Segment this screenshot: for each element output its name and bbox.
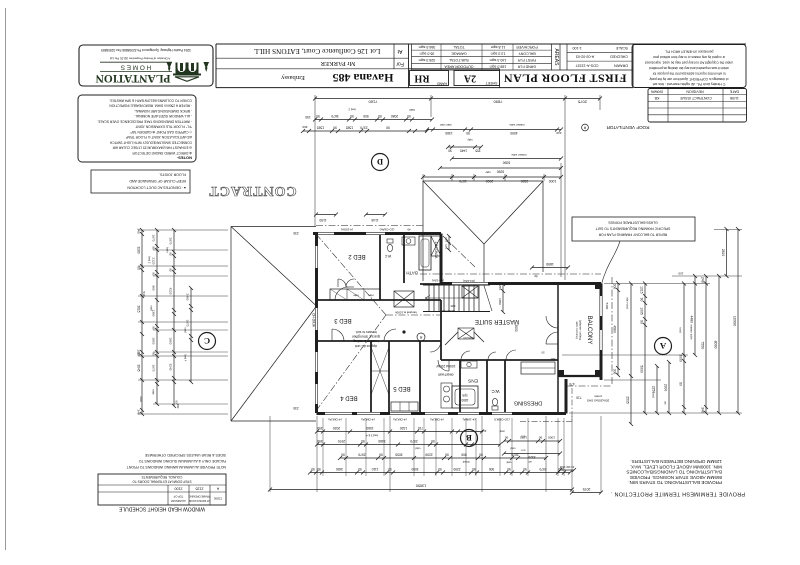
bath vanity	[402, 237, 415, 245]
svg-text:900: 900	[489, 467, 495, 471]
svg-text:2460: 2460	[185, 294, 189, 301]
svg-text:3254 Pacific Highway, Springwo: 3254 Pacific Highway, Springwood Ph.3290…	[101, 48, 191, 52]
svg-text:MASTER SUITE: MASTER SUITE	[475, 318, 519, 324]
svg-text:dwarf wall: dwarf wall	[438, 373, 453, 377]
svg-text:bath: bath	[409, 108, 415, 112]
svg-text:DRAWN: DRAWN	[614, 63, 628, 67]
svg-text:© Henley Arch P/L. All right: © Henley Arch P/L. All rights reserved -…	[653, 82, 726, 86]
svg-text:RH: RH	[414, 73, 429, 84]
svg-text:255: 255	[498, 285, 502, 290]
svg-text:moster suite: moster suite	[511, 153, 527, 157]
svg-text:Embassy: Embassy	[280, 74, 305, 81]
bottom extension lines	[269, 416, 271, 492]
svg-text:- REFER A 250mm DIAM. REMOVEAB: - REFER A 250mm DIAM. REMOVEABLE INSPECT…	[109, 104, 192, 108]
svg-text:(4-OMJA): (4-OMJA)	[361, 418, 374, 422]
svg-text:1190: 1190	[319, 218, 326, 222]
svg-text:230: 230	[293, 231, 299, 235]
svg-text:2020: 2020	[333, 426, 341, 430]
svg-text:1315: 1315	[640, 286, 644, 294]
svg-text:90: 90	[431, 439, 435, 443]
svg-text:240: 240	[137, 228, 141, 233]
svg-text:328.3 sqm: 328.3 sqm	[419, 58, 436, 62]
bath tub	[419, 236, 431, 270]
roof hip dash-dot lines over plan	[316, 234, 386, 315]
svg-text:R: R	[419, 335, 422, 339]
areas table	[411, 44, 413, 70]
title block frame	[216, 43, 746, 45]
right extension lines	[714, 229, 742, 231]
svg-text:void: void	[415, 447, 420, 451]
svg-text:HAND: HAND	[437, 82, 448, 86]
sheet number box	[454, 71, 500, 86]
svg-text:1:100: 1:100	[572, 46, 581, 50]
svg-text:PORCH/VER: PORCH/VER	[516, 45, 538, 49]
svg-text:710: 710	[418, 426, 424, 430]
svg-text:2300: 2300	[664, 384, 668, 392]
svg-text:above floor: above floor	[441, 309, 455, 313]
svg-text:permission of HENLEY ARCH P/L.: permission of HENLEY ARCH P/L.	[664, 50, 713, 54]
svg-text:90: 90	[361, 439, 365, 443]
svg-text:robe: robe	[152, 389, 156, 395]
svg-text:2075: 2075	[583, 487, 591, 491]
svg-text:175: 175	[444, 244, 448, 249]
svg-text:void: void	[184, 328, 188, 333]
svg-text:FIRST FLOOR PLAN: FIRST FLOOR PLAN	[504, 72, 627, 86]
svg-text:3000: 3000	[514, 324, 518, 331]
svg-text:bed 2: bed 2	[148, 257, 152, 264]
svg-text:300: 300	[613, 369, 617, 375]
svg-text:150: 150	[678, 272, 683, 276]
svg-text:90: 90	[640, 298, 644, 302]
svg-text:6390: 6390	[503, 161, 511, 165]
svg-text:3050: 3050	[411, 467, 418, 471]
svg-text:13050: 13050	[416, 484, 427, 488]
svg-text:90: 90	[151, 246, 155, 250]
svg-text:1000d 220W: 1000d 220W	[436, 364, 456, 368]
svg-text:3045: 3045	[136, 364, 140, 371]
svg-text:3240: 3240	[168, 364, 172, 371]
svg-text:90: 90	[151, 326, 155, 330]
svg-text:FLOOR JOISTS.: FLOOR JOISTS.	[159, 173, 186, 177]
svg-text:void: void	[679, 327, 683, 333]
svg-text:location in ceiling: location in ceiling	[353, 339, 378, 343]
ac duct note box	[91, 170, 190, 193]
svg-text:CONTRACT: CONTRACT	[208, 183, 296, 198]
right dimension chains	[617, 283, 619, 375]
svg-text:1145: 1145	[371, 218, 378, 222]
svg-text:90: 90	[386, 126, 390, 130]
svg-text:trusses to suit.: trusses to suit.	[355, 330, 376, 334]
svg-text:⊖ EXHAUST FAN (MAXIMUM 25 LT/: ⊖ EXHAUST FAN (MAXIMUM 25 LT/SEC CLEAR A…	[112, 146, 192, 150]
svg-text:8030: 8030	[714, 341, 718, 349]
svg-text:A/D ARTICULATION JOINT: A/D ARTICULATION JOINT ⊙ FLOOR TRAP	[125, 135, 192, 139]
svg-text:1050: 1050	[498, 298, 502, 305]
svg-text:1445: 1445	[460, 148, 467, 152]
svg-text:2320: 2320	[521, 179, 529, 183]
roof ventilator legend	[582, 124, 589, 131]
top dimension chain overall	[315, 98, 600, 100]
svg-text:CH-2MJA: CH-2MJA	[312, 313, 316, 328]
svg-text:4220: 4220	[168, 288, 172, 295]
svg-text:90: 90	[523, 467, 527, 471]
svg-text:1005: 1005	[640, 307, 644, 315]
svg-text:spa: spa	[462, 394, 467, 398]
svg-text:390: 390	[317, 426, 323, 430]
svg-text:150: 150	[305, 115, 311, 119]
svg-text:w.i.r: w.i.r	[521, 449, 526, 453]
svg-text:- WRITTEN DIMENSIONS TAKE PREC: - WRITTEN DIMENSIONS TAKE PRECEDENCE OVE…	[97, 119, 192, 123]
svg-text:void: void	[510, 447, 515, 451]
svg-text:Lot 126 Confluence Court, EATO: Lot 126 Confluence Court, EATONS HILL	[253, 47, 380, 56]
svg-text:bath: bath	[166, 247, 170, 253]
svg-text:(4-OMJA): (4-OMJA)	[430, 418, 443, 422]
svg-text:90: 90	[472, 467, 476, 471]
svg-text:OUTDOOR AREA: OUTDOOR AREA	[444, 65, 474, 69]
svg-text:10990: 10990	[733, 316, 737, 326]
svg-text:2810: 2810	[721, 249, 725, 257]
svg-text:or copied by any means or in a: or copied by any means or in any form wi…	[652, 55, 725, 59]
svg-text:3450: 3450	[336, 467, 343, 471]
balcony wall glazing	[600, 296, 602, 316]
svg-text:1000: 1000	[549, 179, 557, 183]
svg-text:6390: 6390	[497, 169, 505, 173]
svg-text:340: 340	[701, 407, 705, 413]
svg-text:void: void	[506, 461, 511, 465]
svg-text:2970: 2970	[358, 453, 366, 457]
title block row lines	[216, 57, 409, 59]
svg-text:2100: 2100	[175, 487, 183, 491]
svg-text:FRAME OPENING: FRAME OPENING	[189, 494, 211, 498]
bed2 robe	[330, 289, 380, 300]
svg-text:ROOF VENTILATOR: ROOF VENTILATOR	[606, 125, 650, 130]
svg-text:STEP DOWN AT EXTERNAL DOORS TO: STEP DOWN AT EXTERNAL DOORS TO	[132, 480, 192, 484]
svg-text:1320: 1320	[400, 426, 408, 430]
svg-text:with cornice): with cornice)	[575, 321, 579, 338]
svg-text:90: 90	[317, 467, 321, 471]
external walls	[313, 232, 441, 235]
svg-text:handrail at 1000h: handrail at 1000h	[395, 311, 417, 315]
eave dash-dot lines	[316, 225, 423, 227]
window glazing top wall	[318, 232, 334, 234]
balcony posts	[595, 283, 600, 288]
svg-text:90: 90	[316, 114, 320, 118]
svg-text:NOTES-: NOTES-	[176, 156, 192, 161]
svg-text:PLANTATION: PLANTATION	[95, 72, 171, 84]
svg-text:GARAGE: GARAGE	[451, 51, 467, 55]
ens vanity	[461, 361, 477, 368]
svg-text:ALUMINIUM: ALUMINIUM	[171, 499, 186, 503]
svg-text:(4-18SA): (4-18SA)	[341, 228, 353, 232]
master wir angled entry	[445, 332, 458, 345]
svg-text:(4-18MA): (4-18MA)	[463, 418, 476, 422]
svg-text:4590: 4590	[510, 131, 518, 135]
svg-text:2370: 2370	[360, 126, 368, 130]
svg-text:(4-OMJA): (4-OMJA)	[328, 418, 341, 422]
svg-text:- BRICK DIMENSIONS ARE NOMINAL: - BRICK DIMENSIONS ARE NOMINAL.	[134, 109, 192, 113]
svg-text:90: 90	[479, 453, 483, 457]
svg-text:300: 300	[137, 349, 141, 354]
svg-text:90: 90	[151, 272, 155, 276]
svg-text:90: 90	[505, 436, 509, 440]
svg-text:3320: 3320	[528, 455, 536, 459]
svg-text:HT FROM FLOOR: HT FROM FLOOR	[189, 499, 211, 503]
svg-text:4960: 4960	[613, 325, 617, 333]
svg-text:2290: 2290	[425, 453, 433, 457]
bottom dimension chains	[317, 431, 482, 433]
master window label	[452, 282, 488, 284]
svg-text:3050: 3050	[395, 453, 403, 457]
gable dims	[440, 167, 561, 169]
svg-text:2112-OMJA: 2112-OMJA	[434, 242, 438, 260]
svg-text:1000: 1000	[548, 436, 555, 440]
svg-text:3015: 3015	[136, 305, 140, 312]
svg-text:90: 90	[350, 114, 354, 118]
svg-text:BED 3: BED 3	[334, 317, 352, 323]
svg-text:1580: 1580	[366, 426, 374, 430]
svg-text:90: 90	[640, 320, 644, 324]
svg-text:1800: 1800	[168, 338, 172, 345]
master suite dim	[452, 158, 561, 160]
svg-text:W.C.: W.C.	[490, 389, 499, 394]
svg-text:90: 90	[379, 453, 383, 457]
top chain 2	[315, 119, 432, 121]
svg-text:COUNCIL REQUIREMENTS: COUNCIL REQUIREMENTS	[142, 475, 183, 479]
left wall window glazing	[315, 246, 317, 268]
roof outline left hip	[231, 226, 316, 228]
svg-text:90: 90	[358, 467, 362, 471]
svg-text:BED 4: BED 4	[340, 395, 358, 401]
svg-text:90: 90	[679, 382, 683, 386]
svg-text:posts: posts	[594, 395, 602, 399]
stairs	[423, 284, 490, 286]
detail circle markers	[199, 333, 216, 350]
svg-text:REFER TO BALCONY FRAMING PLAN: REFER TO BALCONY FRAMING PLAN FOR	[598, 233, 667, 237]
svg-text:D: D	[377, 157, 383, 167]
svg-text:DRESSING: DRESSING	[514, 400, 542, 406]
logo house graphic	[166, 62, 209, 81]
svg-text:90: 90	[448, 148, 452, 152]
Plantation Homes logo box	[79, 45, 213, 86]
svg-text:900: 900	[363, 114, 369, 118]
linen cupboard	[431, 236, 441, 256]
svg-text:90: 90	[507, 467, 511, 471]
svg-text:w.i.r: w.i.r	[521, 435, 526, 439]
notes box	[78, 95, 196, 162]
interior walls	[317, 299, 442, 301]
svg-text:SIDES & REAR UNLESS SPECIFIED: SIDES & REAR UNLESS SPECIFIED OTHERWISE	[144, 453, 226, 457]
svg-text:bed 2: bed 2	[348, 108, 355, 112]
svg-text:Approx AC unit: Approx AC unit	[355, 344, 377, 348]
svg-text:4480: 4480	[690, 316, 694, 324]
svg-text:2535: 2535	[626, 396, 630, 404]
svg-text:140.3 sqm: 140.3 sqm	[490, 58, 507, 62]
hand box	[410, 71, 449, 86]
svg-text:1585: 1585	[346, 126, 354, 130]
svg-text:90: 90	[333, 126, 337, 130]
svg-text:11/98: 11/98	[730, 96, 739, 100]
svg-text:1380: 1380	[445, 131, 453, 135]
revision table	[648, 89, 747, 123]
svg-text:stair void: stair void	[440, 123, 452, 127]
svg-text:⊗ DIRECT WIRED SMOKE DETECTOR: ⊗ DIRECT WIRED SMOKE DETECTOR	[132, 151, 192, 155]
robe boxes	[462, 286, 478, 298]
svg-text:H O M E S: H O M E S	[121, 63, 152, 70]
svg-text:7160: 7160	[368, 99, 378, 104]
svg-text:390: 390	[317, 439, 323, 443]
svg-text:820: 820	[450, 304, 455, 308]
svg-text:5000: 5000	[640, 365, 644, 373]
bed5 robe	[391, 402, 418, 411]
roof gable	[423, 180, 543, 182]
svg-text:1670: 1670	[185, 320, 189, 327]
window glazing bottom wall	[325, 413, 352, 415]
svg-text:1070: 1070	[459, 179, 467, 183]
svg-text:90: 90	[378, 114, 382, 118]
svg-text:wc: wc	[664, 401, 668, 405]
svg-text:◇ CAPPED GAS POINT ⊕ GA: ◇ CAPPED GAS POINT ⊕ GARDEN TAP	[130, 130, 192, 134]
svg-text:A/D: A/D	[551, 357, 556, 361]
bed4-bed5 robe strip	[371, 347, 389, 395]
drawn checked scale block	[632, 44, 634, 88]
svg-text:90: 90	[136, 266, 140, 270]
svg-text:● - DENOTES AC DUCT LOCATION: ● - DENOTES AC DUCT LOCATION	[127, 185, 186, 189]
svg-text:NOTE PROVIDE ALUMINIUM AWNING: NOTE PROVIDE ALUMINIUM AWNING WINDOWS TO…	[126, 465, 226, 469]
svg-text:188.0 sqm: 188.0 sqm	[490, 65, 507, 69]
logo rules	[100, 61, 172, 63]
svg-text:dp: dp	[534, 275, 538, 279]
svg-text:W.C: W.C	[384, 254, 391, 258]
svg-text:2080: 2080	[391, 114, 399, 118]
svg-text:230: 230	[293, 406, 299, 410]
svg-text:KB: KB	[654, 96, 659, 100]
svg-text:380: 380	[176, 404, 180, 409]
scan edge line	[5, 8, 7, 550]
door arcs	[335, 287, 348, 300]
roof ventilator mark on plan	[417, 333, 425, 341]
svg-text:TOTAL: TOTAL	[453, 45, 464, 49]
spa bath	[452, 386, 478, 408]
svg-text:360: 360	[302, 125, 307, 129]
svg-text:1800: 1800	[151, 338, 155, 345]
svg-text:1110: 1110	[371, 467, 378, 471]
svg-text:90: 90	[151, 352, 155, 356]
svg-text:90: 90	[445, 453, 449, 457]
svg-text:50: 50	[311, 467, 315, 471]
svg-text:3280: 3280	[136, 246, 140, 253]
svg-text:COVER TO COLUMNS BELOW BATH &: COVER TO COLUMNS BELOW BATH & SPA WASTES…	[109, 98, 192, 102]
svg-text:- ALL WINDOW SIZES ARE NOMINAL: - ALL WINDOW SIZES ARE NOMINAL.	[134, 114, 192, 118]
svg-text:Mr PARKER: Mr PARKER	[320, 60, 355, 67]
svg-text:stair void: stair void	[626, 297, 630, 309]
svg-text:master suite: master suite	[690, 324, 694, 340]
svg-text:DRAWN: DRAWN	[650, 90, 663, 94]
svg-text:5380: 5380	[605, 303, 609, 310]
svg-text:90: 90	[539, 436, 543, 440]
svg-text:spty: spty	[467, 138, 473, 142]
svg-text:bed 3 & 4: bed 3 & 4	[366, 433, 378, 437]
svg-text:Havana 485: Havana 485	[332, 71, 393, 85]
svg-text:A: A	[659, 341, 666, 351]
ens twin basins	[441, 383, 452, 408]
svg-text:which it was requested and any: which it was requested and any fair deal…	[649, 66, 729, 70]
svg-text:240: 240	[701, 277, 705, 283]
svg-text:3670: 3670	[331, 114, 339, 118]
stair landing dims	[502, 284, 504, 312]
svg-text:ENS: ENS	[468, 378, 478, 384]
svg-text:2970: 2970	[539, 467, 546, 471]
svg-text:PROVIDE TERMIMESH TERMITE PROT: PROVIDE TERMIMESH TERMITE PROTECTION .	[611, 491, 745, 497]
svg-text:1670: 1670	[151, 365, 155, 372]
svg-text:CONNECTED SIMULTANEOUSLY WITH: CONNECTED SIMULTANEOUSLY WITH LIGHT SWIT…	[109, 140, 192, 144]
svg-text:C: C	[204, 336, 210, 346]
svg-text:300: 300	[613, 284, 617, 290]
svg-text:355: 355	[475, 148, 481, 152]
gable jamb dims	[448, 236, 450, 250]
svg-text:2070: 2070	[511, 453, 519, 457]
svg-text:of drawings is COPYRIGHT. Apar: of drawings is COPYRIGHT. Apart from use…	[649, 77, 728, 81]
svg-text:void: void	[139, 396, 143, 402]
wc toilet upper	[387, 244, 392, 251]
svg-text:to whom this report is address: to whom this report is addressed for the…	[652, 71, 726, 75]
svg-text:A Division of Henley Propertie: A Division of Henley Properties (QLD) Pt…	[109, 56, 170, 60]
svg-text:3000: 3000	[679, 354, 683, 362]
svg-text:SUB-TOTAL: SUB-TOTAL	[449, 58, 469, 62]
svg-text:(O4-18A): (O4-18A)	[432, 279, 444, 283]
svg-text:under the Copyright Act not an: under the Copyright Act not any part may…	[645, 60, 733, 64]
svg-text:SHEET: SHEET	[485, 81, 498, 85]
svg-text:7890: 7890	[493, 99, 503, 104]
svg-text:L7R6+U0: L7R6+U0	[463, 336, 475, 340]
balcony framing note box	[572, 217, 695, 241]
svg-text:(1O-O6AV): (1O-O6AV)	[380, 228, 395, 232]
svg-text:(4-OMJA): (4-OMJA)	[393, 418, 406, 422]
svg-text:2A: 2A	[463, 73, 476, 84]
svg-text:125MM OPENING BETWEEN BALUSTER: 125MM OPENING BETWEEN BALUSTERS.	[630, 459, 722, 464]
svg-text:90: 90	[407, 114, 411, 118]
svg-text:CODE: CODE	[214, 497, 222, 501]
fixtures	[394, 291, 414, 307]
svg-text:BATH: BATH	[406, 271, 417, 276]
svg-text:13.3 sqm: 13.3 sqm	[491, 51, 506, 55]
svg-text:WINDOW HEAD HEIGHT SCHEDULE: WINDOW HEAD HEIGHT SCHEDULE	[118, 506, 205, 512]
wc toilet lower	[492, 398, 497, 405]
svg-text:BALCONY: BALCONY	[518, 51, 536, 55]
svg-text:CHECKED: CHECKED	[610, 55, 628, 59]
svg-text:366.5 sqm: 366.5 sqm	[419, 45, 436, 49]
svg-text:A-03-02-03: A-03-02-03	[576, 55, 594, 59]
svg-text:BED 2: BED 2	[348, 253, 366, 259]
svg-text:2135: 2135	[196, 487, 204, 491]
svg-text:1890: 1890	[546, 262, 554, 266]
top chain 3 right	[427, 129, 561, 131]
drawing title cell FIRST FLOOR PLAN	[499, 69, 501, 88]
svg-text:240: 240	[556, 131, 561, 135]
svg-text:"FL" FLOOR TILE EXPANSION JOIN: "FL" FLOOR TILE EXPANSION JOINT	[135, 125, 192, 129]
svg-text:REVISION: REVISION	[686, 90, 704, 94]
svg-text:KEEP CLEAR OF DRAINAGE AND: KEEP CLEAR OF DRAINAGE AND	[129, 179, 186, 183]
svg-text:CONTRACT ISSUE: CONTRACT ISSUE	[680, 96, 712, 100]
svg-text:CDS-A-13337: CDS-A-13337	[576, 63, 599, 67]
svg-text:470: 470	[569, 382, 575, 386]
svg-text:B: B	[466, 433, 472, 443]
svg-text:spaces. Strengthen: spaces. Strengthen	[352, 335, 381, 339]
svg-text:36.0 sqm: 36.0 sqm	[420, 51, 435, 55]
svg-text:1360: 1360	[151, 310, 155, 317]
svg-text:90: 90	[168, 252, 172, 256]
left extension lines	[138, 229, 228, 231]
svg-text:2290: 2290	[453, 467, 460, 471]
svg-text:SCALE: SCALE	[615, 46, 628, 50]
